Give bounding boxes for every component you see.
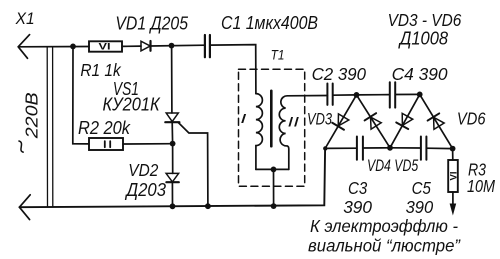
svg-text:220В: 220В [22, 92, 42, 139]
svg-text:виальной “люстре”: виальной “люстре” [308, 236, 461, 256]
node BL bottom-left of multiplier [323, 146, 327, 150]
wire R1 to VD1 [122, 45, 141, 47]
transformer T1 winding II [279, 96, 327, 170]
transformer T1 screen box [239, 69, 305, 186]
transformer T1 core [270, 91, 273, 146]
svg-text:I: I [240, 111, 247, 126]
wire VS1 anode vertical [171, 46, 173, 113]
svg-text:VD3 - VD6: VD3 - VD6 [388, 10, 462, 30]
svg-text:VI: VI [99, 42, 111, 53]
node B top rail [417, 92, 423, 98]
thyristor VS1 [165, 113, 179, 122]
wire C4 to node B [395, 93, 419, 95]
wire diagonal B to D [420, 94, 453, 148]
wire C2 to node A [333, 94, 357, 96]
wire BL to C3 [325, 147, 357, 149]
diode VD3 [332, 113, 349, 129]
svg-text:T1: T1 [271, 47, 285, 62]
svg-text:VD3: VD3 [307, 110, 332, 129]
resistor R1 [89, 41, 122, 52]
diode VD1 [141, 41, 151, 51]
wire R2 to cathode node [123, 143, 173, 145]
svg-text:C4 390: C4 390 [392, 64, 448, 84]
wire mains cord line 1 [46, 47, 48, 207]
svg-text:R2 20k: R2 20k [78, 118, 131, 138]
wire T1 bottom common [256, 168, 289, 170]
node gate bottom junction [205, 203, 211, 209]
svg-text:КУ201К: КУ201К [103, 95, 161, 115]
node VD1-VS1-C1 junction [169, 43, 175, 49]
node phase junction [70, 44, 76, 50]
node center tap bottom junction [271, 203, 277, 209]
wire VS1 cathode down [171, 122, 173, 143]
resistor R2 [89, 138, 123, 150]
svg-text:II: II [288, 114, 300, 129]
svg-text:VD4 VD5: VD4 VD5 [367, 156, 419, 175]
diode VD5 [396, 113, 413, 129]
wire C3 to node C [363, 147, 390, 149]
wire VD1 to C1 [151, 44, 205, 47]
node C bottom rail [387, 145, 393, 151]
wire cathode to VD2 [172, 144, 174, 174]
wire node D to R3 [452, 149, 454, 160]
svg-text:VD2: VD2 [128, 160, 158, 180]
capacitor C4 [390, 82, 395, 107]
connector X1 bottom arrow [19, 195, 30, 220]
wire diagonal C to B [390, 94, 420, 147]
wire node C to C5 [390, 147, 421, 149]
thyristor VS1 gate wire [178, 123, 208, 207]
transformer T1 winding I [256, 94, 263, 170]
svg-text:К электроэффлю -: К электроэффлю - [310, 216, 458, 236]
svg-text:C3: C3 [348, 178, 367, 198]
output arrow to chandelier [450, 204, 457, 216]
svg-text:C1 1мкх400В: C1 1мкх400В [221, 12, 318, 33]
wire diagonal A to C [357, 95, 391, 148]
capacitor C3 [357, 137, 363, 160]
capacitor C2 [327, 84, 332, 105]
resistor R3 [448, 160, 459, 192]
wire C5 to node D [427, 147, 453, 149]
node T1 center tap [271, 167, 277, 173]
svg-text:VI: VI [448, 172, 459, 181]
node R2-cathode junction [170, 141, 176, 147]
wire C1 to T1 primary [210, 45, 256, 94]
wire VD2 to bottom rail [171, 182, 173, 206]
svg-text:X1: X1 [15, 9, 35, 28]
svg-text:R1 1k: R1 1k [80, 60, 121, 80]
wire R3 to output arrow [452, 192, 454, 206]
svg-text:390: 390 [406, 197, 434, 217]
svg-text:Д203: Д203 [125, 180, 166, 200]
svg-text:VD1 Д205: VD1 Д205 [115, 14, 188, 34]
svg-text:390: 390 [343, 197, 372, 217]
label ~ 220V tilde [18, 141, 23, 152]
wire mains cord line 2 [52, 47, 54, 207]
diode VD6 [428, 113, 445, 129]
wire node A to C4 [357, 94, 390, 96]
capacitor C1 [205, 35, 210, 57]
wire R2 branch vertical [73, 46, 89, 143]
node A top rail [354, 92, 360, 98]
diode VD2 [166, 173, 179, 182]
wire top rail left [18, 46, 89, 48]
svg-text:VD6: VD6 [457, 109, 486, 129]
node VD2 bottom junction [170, 203, 176, 209]
node D output junction [450, 146, 456, 152]
wire bottom rail [19, 149, 325, 208]
svg-text:10М: 10М [467, 176, 495, 196]
svg-text:C2 390: C2 390 [312, 64, 367, 84]
diode VD4 [365, 113, 382, 129]
capacitor C5 [421, 137, 427, 160]
svg-text:Д1008: Д1008 [398, 28, 448, 48]
svg-text:C5: C5 [412, 178, 431, 198]
connector X1 top arrow [18, 35, 29, 59]
wire center tap to bottom rail [273, 169, 275, 206]
wire diagonal BL to A [325, 95, 356, 149]
